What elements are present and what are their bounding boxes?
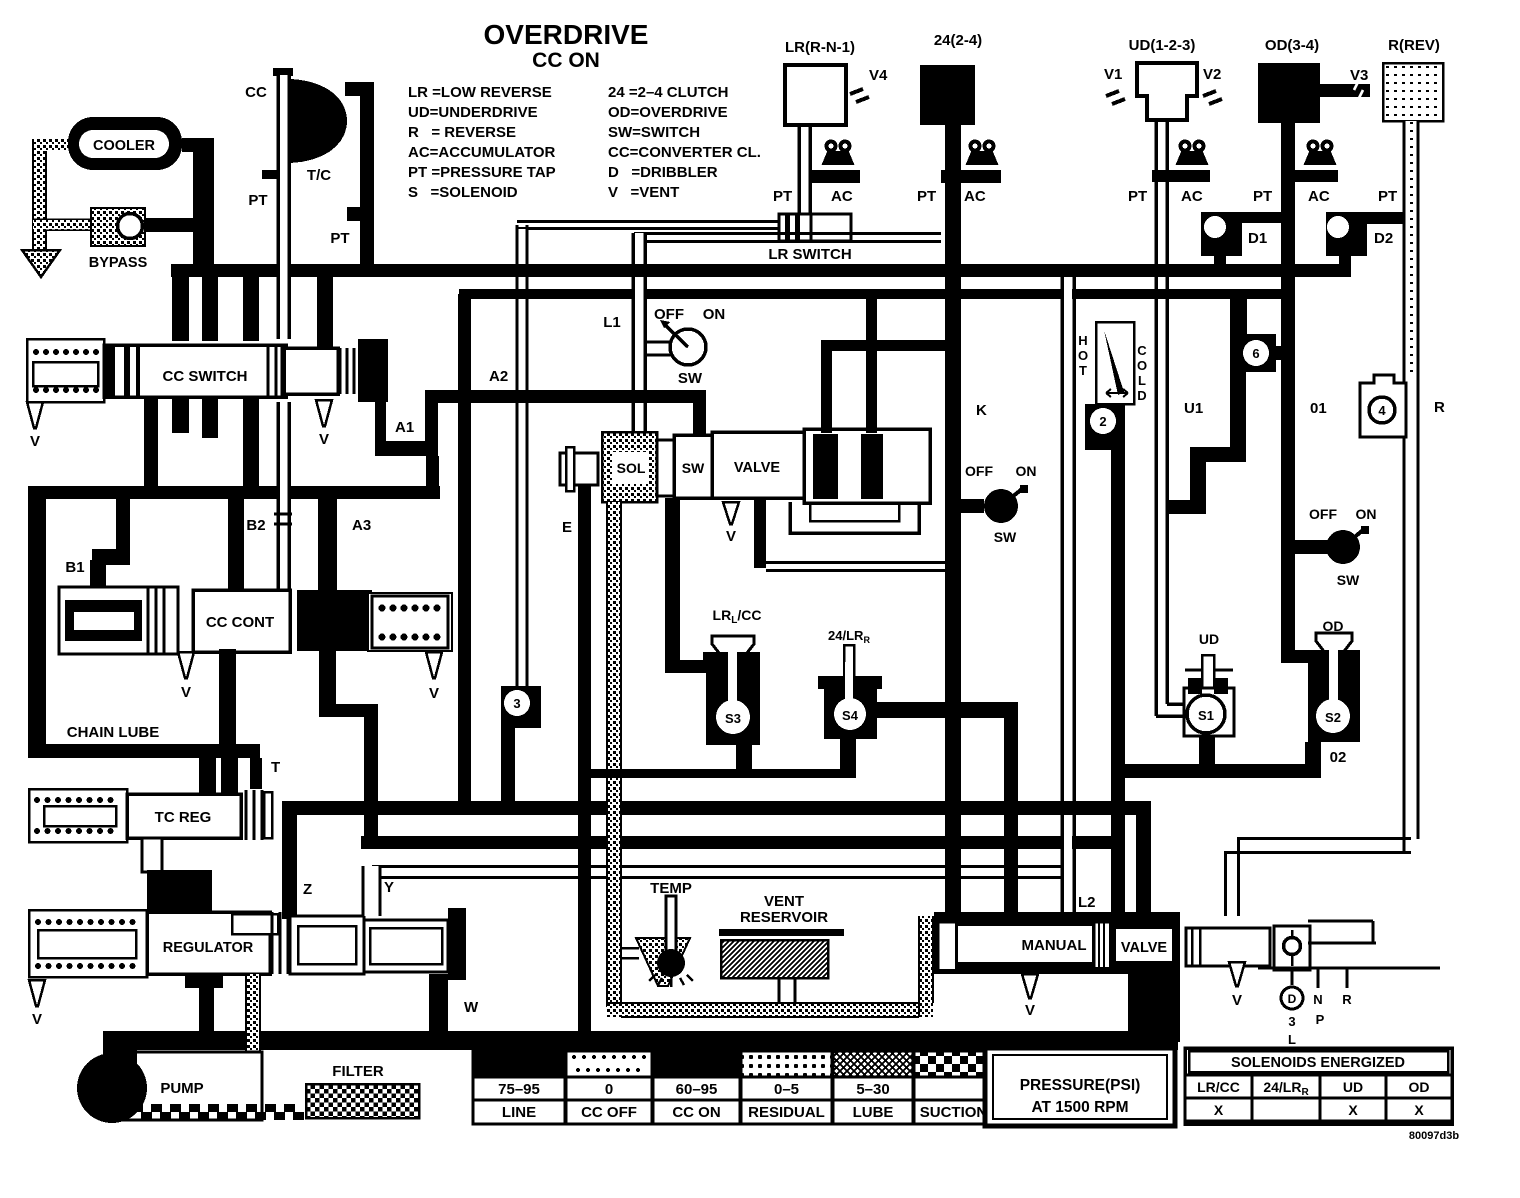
wire bus A (main line) [171, 264, 1351, 277]
svg-text:C: C [1137, 343, 1147, 358]
svg-text:CC ON: CC ON [672, 1104, 720, 1121]
svg-text:BYPASS: BYPASS [89, 255, 148, 271]
svg-text:O: O [1137, 358, 1147, 373]
svg-text:MANUAL: MANUAL [1022, 937, 1087, 954]
wire suction line (dashed) [132, 1104, 304, 1120]
svg-text:CC=CONVERTER CL.: CC=CONVERTER CL. [608, 144, 761, 161]
wire bottom main bus [103, 1031, 1178, 1050]
svg-text:V: V [429, 685, 439, 702]
svg-text:UD=UNDERDRIVE: UD=UNDERDRIVE [408, 104, 538, 121]
svg-text:01: 01 [1310, 400, 1327, 417]
wire Y line (to R channel and valve) [372, 837, 1411, 916]
vent V (manual valve left) [1022, 974, 1038, 998]
svg-text:0–5: 0–5 [774, 1081, 799, 1098]
svg-text:CHAIN LUBE: CHAIN LUBE [67, 724, 160, 741]
wire 6-to-UD staircase [1230, 372, 1246, 450]
svg-text:SW: SW [994, 529, 1017, 545]
svg-text:OFF: OFF [654, 306, 684, 323]
wire node vertical (Z junction) [364, 704, 378, 849]
svg-text:D: D [1137, 388, 1146, 403]
wire CC SWITCH lower feed [228, 499, 244, 592]
svg-text:E: E [562, 519, 572, 536]
switch SW (L1 converter switch) [645, 306, 725, 387]
svg-text:V: V [726, 528, 736, 545]
vent V (CC SWITCH mid) [316, 400, 332, 426]
switch SW (OD line) [1295, 506, 1377, 588]
wire B2 channel [274, 402, 292, 590]
thermometer TEMP [621, 880, 693, 987]
svg-text:AC: AC [1308, 188, 1330, 205]
wire UD channel [1156, 120, 1184, 716]
wire B1 feed [116, 499, 130, 554]
cooler [68, 117, 182, 170]
wire loop-to-K line [766, 563, 949, 571]
wire K line (24 clutch line) [945, 125, 961, 918]
vent V4 [850, 67, 888, 102]
wire channel to node 3 [517, 225, 527, 686]
table solenoids energized [1185, 1048, 1452, 1124]
accumulator UD(1-2-3) [1129, 37, 1197, 120]
svg-text:80097d3b: 80097d3b [1409, 1130, 1459, 1142]
svg-text:V: V [181, 684, 191, 701]
svg-text:CC SWITCH: CC SWITCH [163, 368, 248, 385]
svg-text:V: V [1232, 992, 1242, 1009]
svg-text:V: V [30, 433, 40, 450]
pressure tap PT (CC line) [262, 170, 278, 179]
svg-text:CC: CC [245, 84, 267, 101]
svg-text:4: 4 [1378, 403, 1386, 418]
svg-text:S =SOLENOID: S =SOLENOID [408, 184, 518, 201]
svg-text:AT 1500 RPM: AT 1500 RPM [1031, 1099, 1128, 1116]
svg-text:FILTER: FILTER [332, 1063, 384, 1080]
wire L1 feeder line [634, 234, 941, 242]
accumulator OD(3-4) [1258, 37, 1320, 123]
svg-text:UD: UD [1199, 631, 1219, 647]
svg-text:6: 6 [1252, 346, 1259, 361]
svg-text:L: L [1138, 373, 1146, 388]
wire cooler return (stippled) [33, 139, 91, 250]
wire regulator suction overlay [247, 1031, 259, 1050]
wire L2 channel [1062, 277, 1074, 917]
vent V (CC CONT right) [426, 652, 442, 678]
dribbler D1 [1201, 212, 1284, 267]
svg-text:OD(3-4): OD(3-4) [1265, 37, 1319, 54]
wire LR channel [799, 125, 810, 214]
wire under-spool loop inner [810, 502, 899, 521]
svg-text:R: R [1342, 992, 1352, 1007]
wire bus C [282, 801, 1151, 815]
vent reservoir [719, 893, 844, 1004]
dribbler D2 [1326, 212, 1410, 267]
wire S4 right arm [877, 702, 1018, 718]
wire bus D [361, 836, 1125, 849]
valve TC REG [29, 758, 280, 914]
wire cooler outlet [182, 138, 205, 152]
svg-text:PT: PT [773, 188, 792, 205]
svg-text:R = REVERSE: R = REVERSE [408, 124, 516, 141]
wire reservoir channel (stippled U) [607, 916, 933, 1017]
accumulator LR(R-N-1) [785, 39, 855, 125]
torque converter T/C [291, 79, 347, 163]
svg-text:AC=ACCUMULATOR: AC=ACCUMULATOR [408, 144, 556, 161]
wire under-spool loop outer [754, 500, 766, 568]
svg-text:SW: SW [1337, 572, 1360, 588]
svg-text:S3: S3 [725, 711, 741, 726]
vent V2 [1203, 66, 1222, 104]
svg-text:S1: S1 [1198, 708, 1214, 723]
svg-text:PT: PT [917, 188, 936, 205]
wire E line [578, 470, 591, 1040]
svg-text:T: T [271, 759, 280, 776]
arrow cooler drain [22, 250, 60, 277]
svg-text:PT =PRESSURE TAP: PT =PRESSURE TAP [408, 164, 556, 181]
solenoid S3 (LR/CC) [703, 607, 761, 745]
svg-text:AC: AC [1181, 188, 1203, 205]
wire A2 line [458, 294, 471, 815]
wire S3/S4 bottom line [589, 769, 856, 778]
svg-text:H: H [1078, 333, 1087, 348]
wire SW-to-S3 feed [665, 498, 680, 673]
check ball 4 (OD/R) [1360, 375, 1445, 437]
svg-text:S2: S2 [1325, 710, 1341, 725]
svg-text:PT: PT [1128, 188, 1147, 205]
svg-text:PT: PT [1378, 188, 1397, 205]
svg-text:TEMP: TEMP [650, 880, 692, 897]
svg-text:T/C: T/C [307, 167, 331, 184]
wire thin line to node 3 [517, 222, 779, 229]
accumulator icon LR [773, 142, 860, 206]
valve CC CONT [193, 590, 452, 652]
pressure tap PT (T/C) [347, 207, 360, 221]
svg-text:SOL: SOL [617, 460, 646, 476]
svg-text:ON: ON [1356, 506, 1377, 522]
svg-text:Y: Y [384, 879, 394, 896]
svg-text:PT: PT [1253, 188, 1272, 205]
wire OD line [1281, 123, 1295, 662]
accumulator icon UD [1128, 142, 1210, 206]
svg-text:3: 3 [1288, 1014, 1295, 1029]
svg-text:Z: Z [303, 881, 312, 898]
svg-text:ON: ON [1016, 463, 1037, 479]
svg-text:O: O [1078, 348, 1088, 363]
table pressure legend [473, 1051, 993, 1124]
solenoid S2 (OD) [1281, 618, 1360, 742]
svg-text:2: 2 [1099, 414, 1106, 429]
svg-text:V: V [1025, 1002, 1035, 1019]
svg-text:D2: D2 [1374, 230, 1393, 247]
svg-text:LR(R-N-1): LR(R-N-1) [785, 39, 855, 56]
svg-text:VALVE: VALVE [1121, 940, 1168, 956]
svg-text:D1: D1 [1248, 230, 1267, 247]
svg-text:V: V [32, 1011, 42, 1028]
svg-text:X: X [1414, 1102, 1424, 1118]
svg-text:24(2-4): 24(2-4) [934, 32, 982, 49]
svg-text:A1: A1 [395, 419, 414, 436]
wire CC CONT drain to node [319, 704, 378, 717]
svg-text:SW: SW [682, 460, 705, 476]
svg-text:AC: AC [831, 188, 853, 205]
svg-text:D: D [1288, 992, 1297, 1006]
svg-text:VENT: VENT [764, 893, 804, 910]
svg-text:5–30: 5–30 [856, 1081, 889, 1098]
svg-text:REGULATOR: REGULATOR [163, 940, 254, 956]
svg-text:RESERVOIR: RESERVOIR [740, 909, 828, 926]
svg-text:W: W [464, 999, 479, 1016]
wire CC CONT to chain lube [219, 649, 236, 746]
vent V3 [1320, 67, 1370, 98]
vent V (regulator) [29, 980, 45, 1006]
svg-text:75–95: 75–95 [498, 1081, 540, 1098]
svg-text:K: K [976, 402, 987, 419]
svg-text:R(REV): R(REV) [1388, 37, 1440, 54]
wire Y connector [363, 866, 380, 916]
svg-text:OVERDRIVE: OVERDRIVE [484, 19, 649, 50]
svg-text:L2: L2 [1078, 894, 1096, 911]
wire SOL drain (stippled channel to reservoir) [607, 502, 621, 1007]
svg-text:PUMP: PUMP [160, 1080, 203, 1097]
bypass valve [89, 208, 193, 271]
svg-text:CC CONT: CC CONT [206, 614, 274, 631]
vent V (under VALVE) [723, 502, 739, 524]
vent V (CC CONT left) [178, 652, 194, 678]
thermal valve (HOT/COLD) [1078, 322, 1147, 450]
wire S1/S2 bottom line [1125, 764, 1321, 778]
node 3 (check ball) [501, 686, 541, 728]
svg-text:LR =LOW REVERSE: LR =LOW REVERSE [408, 84, 552, 101]
svg-text:CC ON: CC ON [532, 49, 600, 72]
svg-text:SW: SW [678, 370, 703, 387]
svg-text:CC OFF: CC OFF [581, 1104, 637, 1121]
svg-text:V4: V4 [869, 67, 888, 84]
svg-text:V =VENT: V =VENT [608, 184, 679, 201]
svg-text:P: P [1316, 1012, 1325, 1027]
pump [77, 1031, 262, 1123]
vent V (CC SWITCH left) [27, 402, 43, 428]
node 6 (check ball) [1230, 299, 1247, 339]
svg-text:02: 02 [1330, 749, 1347, 766]
accumulator icon OD [1253, 142, 1338, 206]
svg-text:V2: V2 [1203, 66, 1221, 83]
svg-text:OD: OD [1409, 1079, 1430, 1095]
wire bus B (secondary line) [459, 289, 1295, 299]
svg-text:V: V [319, 431, 329, 448]
svg-text:B2: B2 [246, 517, 265, 534]
svg-text:60–95: 60–95 [676, 1081, 718, 1098]
svg-text:LR SWITCH: LR SWITCH [768, 246, 851, 263]
wire thermal heavy line [1111, 448, 1125, 917]
svg-text:X: X [1348, 1102, 1358, 1118]
svg-text:0: 0 [605, 1081, 613, 1098]
svg-text:OD=OVERDRIVE: OD=OVERDRIVE [608, 104, 728, 121]
table pressure note [985, 1048, 1175, 1126]
wire Z line [282, 801, 297, 919]
wire L1 channel [633, 233, 645, 433]
valve MANUAL [934, 894, 1376, 1042]
vent V1 [1104, 66, 1125, 104]
vent V (manual valve right) [1229, 962, 1245, 986]
svg-text:3: 3 [513, 696, 520, 711]
accumulator 24(2-4) [920, 32, 982, 125]
svg-text:PT: PT [248, 192, 267, 209]
svg-text:A2: A2 [489, 368, 508, 385]
solenoid block SOL/SW/VALVE [560, 429, 930, 503]
svg-text:SUCTION: SUCTION [920, 1104, 988, 1121]
svg-text:A3: A3 [352, 517, 371, 534]
switch SW (K line) [961, 463, 1037, 545]
svg-text:COOLER: COOLER [93, 138, 156, 154]
svg-text:T: T [1079, 363, 1087, 378]
valve CC SWITCH [27, 277, 388, 496]
wire spool top connectors [866, 299, 877, 433]
wire A1 line [375, 402, 386, 443]
svg-text:SOLENOIDS ENERGIZED: SOLENOIDS ENERGIZED [1231, 1055, 1405, 1071]
svg-text:D =DRIBBLER: D =DRIBBLER [608, 164, 718, 181]
svg-text:UD(1-2-3): UD(1-2-3) [1129, 37, 1196, 54]
wire R channel [1404, 121, 1418, 853]
valve REGULATOR [29, 908, 466, 980]
filter [306, 1063, 419, 1118]
switch LR SWITCH [768, 214, 851, 263]
svg-text:B1: B1 [65, 559, 84, 576]
svg-text:AC: AC [964, 188, 986, 205]
solenoid S1 (UD) [1184, 631, 1234, 736]
svg-text:OFF: OFF [1309, 506, 1337, 522]
svg-text:SW=SWITCH: SW=SWITCH [608, 124, 700, 141]
svg-text:PRESSURE(PSI): PRESSURE(PSI) [1020, 1077, 1141, 1094]
svg-text:VALVE: VALVE [734, 460, 781, 476]
svg-text:V1: V1 [1104, 66, 1122, 83]
svg-text:L1: L1 [603, 314, 621, 331]
wire chain lube line [28, 744, 260, 758]
wire left long line [28, 486, 440, 499]
svg-text:TC REG: TC REG [155, 809, 212, 826]
wire W line [429, 974, 448, 1038]
gear position indicator D-N-R [1258, 968, 1440, 1047]
svg-text:L: L [1288, 1032, 1296, 1047]
svg-text:PT: PT [330, 230, 349, 247]
wire A3 line [318, 499, 337, 592]
svg-text:OFF: OFF [965, 463, 993, 479]
svg-text:R: R [1434, 399, 1445, 416]
accumulator R(REV) [1383, 37, 1443, 121]
solenoid S4 (24/LRr) [818, 628, 882, 739]
svg-text:RESIDUAL: RESIDUAL [748, 1104, 825, 1121]
svg-text:S4: S4 [842, 708, 859, 723]
wire left vertical [28, 486, 46, 758]
svg-text:N: N [1313, 992, 1322, 1007]
svg-text:24 =2–4 CLUTCH: 24 =2–4 CLUTCH [608, 84, 728, 101]
svg-text:LINE: LINE [502, 1104, 536, 1121]
svg-text:U1: U1 [1184, 400, 1203, 417]
svg-text:UD: UD [1343, 1079, 1363, 1095]
svg-text:ON: ON [703, 306, 726, 323]
accumulator icon 24 [917, 142, 1001, 206]
svg-text:LR/CC: LR/CC [1197, 1079, 1240, 1095]
svg-text:LUBE: LUBE [853, 1104, 894, 1121]
wire regulator suction (stippled) [246, 974, 260, 1114]
svg-text:X: X [1214, 1102, 1224, 1118]
svg-text:V3: V3 [1350, 67, 1368, 84]
wire regulator drain to sump [185, 974, 223, 988]
